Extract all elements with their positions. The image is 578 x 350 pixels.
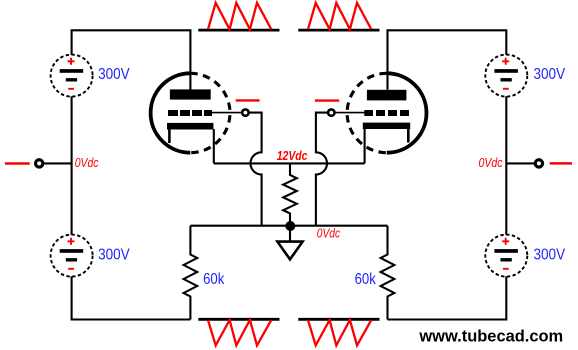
wire: T1 grid drop with hop over 12Vdc bus [249, 113, 262, 226]
sawtooth waveform (bottom left, inverted) [208, 320, 271, 345]
svg-text:60k: 60k [355, 271, 376, 288]
triode T1 envelope (dashed right arc) [190, 73, 230, 152]
triode T1 envelope (solid left arc) [151, 73, 191, 152]
right input signal trace (flat) [550, 162, 572, 165]
svg-text:12Vdc: 12Vdc [277, 148, 308, 163]
svg-text:300V: 300V [534, 66, 566, 83]
waveform baseline (top right) [298, 29, 379, 32]
wire: T2 grid drop with hop over 12Vdc bus [316, 113, 328, 226]
wire: right rail between V3 and V4 [505, 96, 507, 235]
wire: V2 bottom to bottom rail to R1 [72, 276, 191, 319]
resistor R1 60k (left) [184, 226, 198, 320]
triode T1 cathode [167, 123, 213, 130]
wire: bottom rail right to V4 [388, 276, 507, 319]
junction dot (0Vdc node) [285, 221, 295, 231]
triode T2 plate [367, 90, 407, 101]
wire: top-left B+ rail (V1 top to T1 plate) [72, 30, 191, 89]
svg-text:www.tubecad.com: www.tubecad.com [418, 326, 563, 345]
wire: T2 plate to top-right B+ rail [388, 30, 507, 89]
T2 grid signal trace (flat) [315, 99, 339, 101]
wire: left input to left rail [43, 162, 72, 164]
wire: left rail between V1 and V2 [71, 96, 73, 235]
waveform baseline (top left) [198, 29, 279, 32]
svg-text:0Vdc: 0Vdc [479, 156, 504, 170]
wire: right rail to right input [506, 162, 535, 164]
svg-text:0Vdc: 0Vdc [317, 227, 341, 241]
svg-text:300V: 300V [98, 66, 130, 83]
triode T2 grid [364, 110, 409, 116]
svg-text:300V: 300V [98, 246, 130, 263]
svg-text:0Vdc: 0Vdc [75, 156, 99, 170]
right input terminal [535, 160, 542, 167]
triode T2 envelope (solid right arc) [387, 73, 427, 152]
T1 grid signal trace (flat) [236, 99, 260, 101]
left input terminal [36, 160, 43, 167]
triode T1 grid [168, 110, 212, 116]
voltage source V1 (upper left 300V) [51, 55, 93, 97]
wire: 12Vdc cathode bus [214, 162, 365, 164]
triode T1 grid terminal [242, 109, 248, 115]
ground [277, 242, 302, 260]
sawtooth waveform (bottom right, inverted) [308, 320, 371, 345]
waveform baseline (bottom right) [298, 318, 379, 321]
svg-text:60k: 60k [203, 271, 224, 288]
wire: 0Vdc rail [190, 225, 387, 227]
voltage source V3 (upper right 300V) [485, 55, 527, 97]
resistor R2 60k (right) [381, 226, 395, 320]
resistor R3 (middle cathode resistor) [283, 163, 297, 225]
wire: T1 cathode lead [213, 129, 215, 163]
triode T2 envelope (dashed left arc) [347, 73, 387, 152]
svg-text:300V: 300V [534, 246, 566, 263]
triode T1 cathode leg [168, 130, 171, 144]
sawtooth waveform (top left B+ ripple) [208, 3, 271, 30]
waveform baseline (bottom left) [198, 318, 279, 321]
voltage source V4 (lower right 300V) [485, 235, 527, 277]
voltage source V2 (lower left 300V) [51, 235, 93, 277]
triode T2 cathode [363, 123, 410, 129]
wire: T1 grid lead (thin) [211, 112, 242, 114]
triode T2 cathode leg [407, 129, 410, 143]
wire: T2 cathode lead [364, 129, 366, 163]
wire: junction to ground [289, 226, 291, 242]
left input signal trace (flat) [5, 162, 30, 165]
wire: T2 grid lead (thin) [335, 112, 366, 114]
triode T2 grid terminal [328, 109, 334, 115]
triode T1 plate [170, 89, 211, 99]
sawtooth waveform (top right B+ ripple) [308, 3, 371, 30]
